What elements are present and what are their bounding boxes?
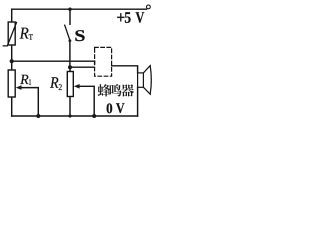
label R2: subscript 2 [59, 84, 62, 90]
label +5 V: plus sign [117, 13, 124, 21]
potentiometer R1 wiper lead wire [21, 88, 39, 116]
node dot: top rail / switch junction [68, 8, 71, 11]
wire left rail [11, 9, 13, 116]
node dot: R2 wiper to bottom rail [92, 114, 96, 118]
label RT: subscript T [29, 34, 33, 40]
wire node A to buzzer input 1 [12, 61, 95, 64]
potentiometer R1 wiper arrowhead [16, 85, 22, 90]
buzzer module dashed box [95, 47, 112, 76]
potentiometer R2 body [67, 72, 73, 97]
label text ming (鸣) of buzzer caption 蜂鸣器 [110, 84, 122, 96]
switch S blade [65, 25, 70, 40]
thermistor RT body [8, 22, 15, 45]
node dot: node B (switch / R2 / buzzer) [68, 65, 72, 69]
label RT: R (italic serif) [20, 28, 29, 39]
label R1: subscript 1 [29, 79, 31, 85]
speaker LS cone [143, 66, 151, 95]
potentiometer R2 wiper lead wire [78, 86, 95, 116]
node dot: switch lower contact [69, 39, 72, 42]
wire node B to R2 top [69, 67, 71, 71]
terminal +5V circle [147, 5, 151, 9]
wire R2 bottom lead to bottom rail [69, 97, 71, 117]
wire top rail [12, 8, 147, 10]
wire buzzer output to speaker [112, 66, 138, 73]
speaker LS lower lead [137, 87, 139, 116]
label S (switch) [75, 30, 84, 41]
node dot: left rail divider junction [10, 59, 14, 63]
speaker LS driver body [138, 73, 144, 87]
switch S upper lead [69, 9, 71, 24]
potentiometer R2 wiper arrowhead [74, 84, 80, 89]
node dot: R2 top at bottom rail [68, 114, 71, 117]
potentiometer R1 body [8, 70, 15, 97]
label 0 V: letter V [116, 103, 125, 113]
label R2: R (italic serif) [50, 77, 58, 88]
node dot: R1 wiper to bottom rail [36, 114, 40, 118]
label text feng (蜂) of buzzer caption 蜂鸣器 [98, 84, 111, 96]
switch S lower lead [69, 41, 71, 68]
wire node B to buzzer input 2 [70, 66, 93, 68]
thermistor RT diagonal strike [3, 23, 16, 46]
label +5 V: digit 5 [125, 12, 131, 23]
label +5 V: letter V [136, 12, 145, 23]
label text qi (器) of buzzer caption 蜂鸣器 [121, 84, 134, 96]
label R1: R (italic serif) [20, 75, 28, 84]
label 0 V: digit 0 [107, 103, 113, 113]
wire bottom rail [12, 115, 138, 117]
